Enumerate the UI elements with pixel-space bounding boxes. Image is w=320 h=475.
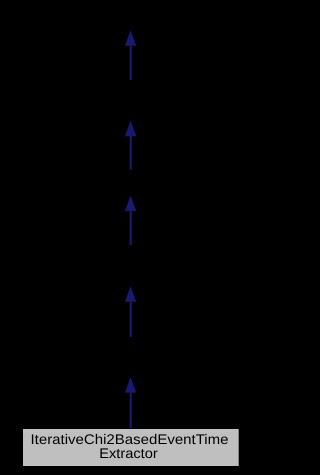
inheritance arrow edge 4: [125, 286, 136, 337]
inheritance arrow edge 1 (topmost): [125, 30, 136, 80]
class node box: IterativeChi2BasedEventTimeExtractor: [23, 429, 240, 467]
inheritance arrow edge 2: [125, 121, 136, 170]
inheritance arrow edge 5 (into class node): [125, 377, 136, 429]
inheritance arrow edge 3: [125, 196, 136, 245]
svg-text:Extractor: Extractor: [99, 445, 158, 461]
